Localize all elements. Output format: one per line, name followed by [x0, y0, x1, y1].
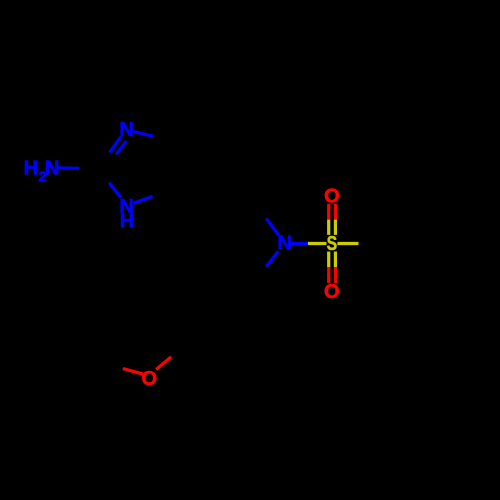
svg-text:O: O [324, 281, 340, 303]
svg-text:O: O [324, 186, 340, 208]
svg-text:H: H [24, 158, 38, 180]
svg-text:N: N [119, 119, 133, 141]
svg-text:H: H [120, 211, 134, 233]
svg-text:O: O [142, 368, 158, 390]
svg-text:N: N [45, 158, 59, 180]
svg-text:S: S [327, 232, 338, 254]
svg-text:N: N [277, 233, 291, 255]
